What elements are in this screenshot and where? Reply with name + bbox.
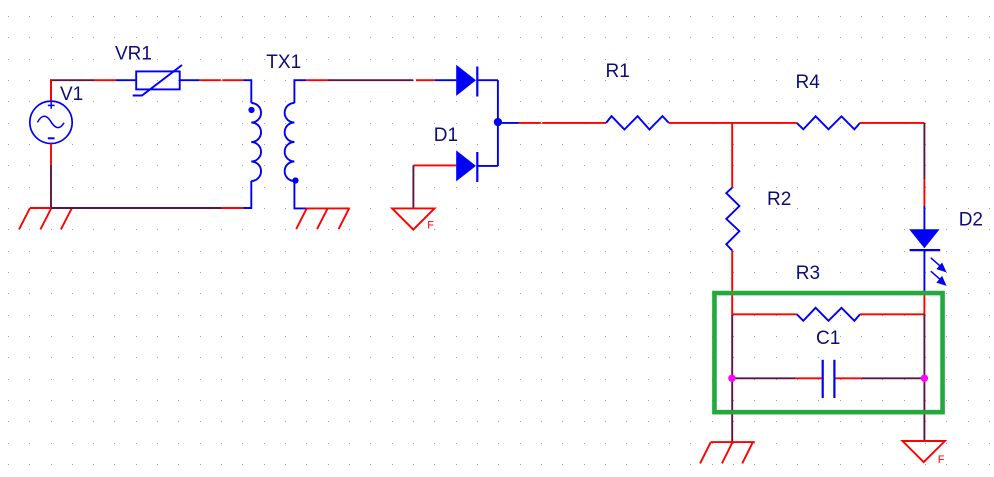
wire C1 right dark — [861, 377, 924, 379]
LED D2 — [909, 206, 940, 293]
wire down to F ground dark — [412, 165, 414, 208]
wire D1 bottom anode red horizontal — [413, 164, 434, 166]
wire bottom rail dark — [51, 207, 222, 209]
resistor R4 — [797, 116, 860, 129]
wire V1 top vertical red — [50, 80, 52, 101]
svg-text:R3: R3 — [796, 263, 820, 284]
svg-text:D2: D2 — [959, 209, 983, 230]
wire R3 right red — [860, 313, 924, 315]
wire V1 bottom dark — [50, 165, 52, 208]
transformer TX1 — [244, 80, 307, 208]
wire corner to D2 dark — [923, 123, 925, 179]
ground G1 slashes — [19, 208, 72, 229]
wire TX1 secondary top dark — [328, 79, 413, 81]
ground F2 triangle — [903, 441, 945, 462]
wire VR1 to TX1 primary (red) — [200, 79, 221, 81]
varistor VR1 — [116, 65, 200, 96]
node C magenta dot right — [921, 375, 928, 382]
svg-text:F: F — [427, 219, 434, 231]
source V1 — [30, 101, 72, 143]
svg-text:VR1: VR1 — [115, 43, 152, 64]
wire C1 left red — [795, 377, 821, 379]
ground G2 slashes — [296, 208, 349, 229]
wire R2 bottom red — [731, 251, 733, 315]
wire to VR1 left (red) — [94, 79, 116, 81]
svg-text:R1: R1 — [606, 61, 630, 82]
wire D1 bottom anode red — [435, 164, 457, 166]
wire bottom rail red — [222, 207, 244, 209]
ground G2 bar — [306, 207, 350, 209]
node A junction dot — [494, 118, 502, 126]
LED D2 arrows — [931, 258, 945, 285]
ground F1 triangle — [392, 208, 434, 229]
svg-text:D1: D1 — [434, 125, 458, 146]
wire R2 branch red vertical — [731, 123, 733, 188]
wire R3 left red — [732, 313, 797, 315]
wire D1 cathode down — [497, 80, 499, 166]
wire C1 left dark — [732, 377, 795, 379]
wire R2 bottom dark — [731, 314, 733, 442]
resistor R2 — [726, 188, 739, 251]
diode D1 bottom — [456, 150, 498, 182]
svg-text:TX1: TX1 — [266, 52, 301, 73]
green highlight box — [714, 293, 942, 412]
wire R4 to corner red — [860, 122, 924, 124]
svg-text:V1: V1 — [60, 84, 83, 105]
resistor R1 — [606, 116, 669, 129]
wire C1 right red — [835, 377, 861, 379]
svg-text:C1: C1 — [816, 328, 840, 349]
wire D2 to R3 red — [923, 293, 925, 314]
ground G1 bar — [30, 207, 52, 209]
wire to D1 anode red — [416, 79, 435, 81]
capacitor C1 — [823, 360, 835, 398]
wire R1 to R4 red — [669, 122, 797, 124]
svg-text:R4: R4 — [796, 72, 821, 93]
wire R3 to C1 dark right vertical — [923, 314, 925, 441]
wire bus red to R1 — [519, 122, 541, 124]
diode D1 top — [435, 65, 498, 97]
wire V1 bottom red — [50, 144, 52, 165]
resistor R3 — [797, 308, 860, 321]
svg-text:F: F — [938, 454, 945, 466]
svg-text:R2: R2 — [767, 189, 791, 210]
ground G3 slashes — [700, 442, 753, 463]
wire TX1 secondary top red — [306, 79, 328, 81]
wire to D2 red — [923, 179, 925, 206]
ground G3 bar — [711, 441, 755, 443]
wire bus blue segment — [498, 122, 519, 124]
wire V1 top to VR1 (dark segment) — [51, 80, 94, 101]
node B magenta dot left — [728, 375, 735, 382]
